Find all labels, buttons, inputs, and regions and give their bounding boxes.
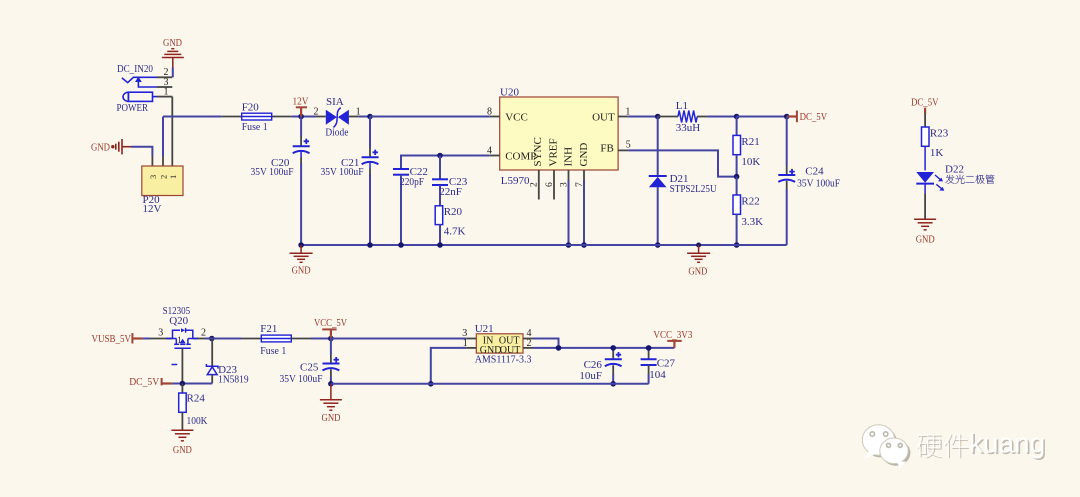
resistor R21 — [733, 117, 760, 177]
svg-text:VCC_3V3: VCC_3V3 — [653, 329, 692, 341]
svg-text:POWER: POWER — [117, 102, 149, 114]
svg-text:VCC: VCC — [505, 112, 528, 124]
svg-text:3: 3 — [158, 328, 163, 339]
connector P20 — [142, 166, 183, 215]
svg-text:10uF: 10uF — [579, 370, 602, 382]
svg-text:STPS2L25U: STPS2L25U — [670, 183, 717, 195]
inductor L1 — [658, 100, 737, 134]
junction gate/R24 node — [180, 381, 186, 387]
svg-text:35V 100uF: 35V 100uF — [251, 166, 294, 178]
wire GND rail (lower circuit) — [331, 383, 649, 385]
junction VCC_5V node — [328, 336, 334, 342]
capacitor C20 — [251, 117, 310, 246]
svg-text:SIA: SIA — [326, 96, 344, 108]
svg-text:Fuse 1: Fuse 1 — [260, 345, 286, 357]
capacitor C25 — [280, 339, 340, 386]
svg-text:D22: D22 — [945, 163, 964, 175]
junction U20 GND rail — [581, 242, 587, 248]
svg-text:5: 5 — [626, 139, 631, 150]
ground GND (below C20) — [290, 245, 313, 277]
wire COMP net — [401, 156, 490, 170]
wire drain to F21 — [205, 338, 261, 340]
svg-text:INH: INH — [563, 147, 575, 167]
connector DC_IN20 POWER jack — [117, 63, 173, 114]
svg-text:SYNC: SYNC — [532, 137, 544, 166]
svg-text:12V: 12V — [293, 96, 309, 108]
svg-text:GND: GND — [163, 37, 182, 49]
wire 12V rail — [163, 116, 326, 118]
wire ground to P20 pin 3 — [131, 147, 152, 156]
ic U21 AMS1117-3.3 — [462, 323, 533, 365]
junction DC_5V node — [784, 114, 790, 120]
svg-text:L5970: L5970 — [501, 175, 530, 187]
junction R20 rail — [437, 242, 443, 248]
fuse F20 — [242, 102, 272, 134]
power port VUSB_5V — [92, 333, 143, 345]
junction GND symbol rail — [696, 243, 701, 248]
junction OUT node — [655, 114, 661, 120]
diode D20 SIA — [314, 96, 361, 139]
power port 12V — [293, 96, 309, 117]
ground GND (below R24) — [171, 430, 193, 456]
svg-text:AMS1117-3.3: AMS1117-3.3 — [475, 354, 532, 365]
svg-text:1N5819: 1N5819 — [218, 374, 249, 386]
svg-text:R23: R23 — [930, 128, 949, 140]
svg-text:2: 2 — [527, 338, 532, 349]
svg-text:R22: R22 — [741, 196, 759, 208]
wire diode to junction — [359, 116, 370, 118]
svg-text:VCC_5V: VCC_5V — [314, 317, 347, 329]
capacitor C27 — [641, 348, 676, 384]
junction C26 rail — [610, 381, 616, 387]
resistor R20 — [435, 206, 465, 245]
svg-text:35V 100uF: 35V 100uF — [280, 373, 323, 385]
svg-text:Diode: Diode — [325, 127, 348, 139]
svg-text:kuang: kuang — [969, 428, 1045, 459]
wire U20 GND pin to ground rail — [583, 180, 585, 245]
resistor R24 — [179, 384, 208, 430]
svg-text:35V 100uF: 35V 100uF — [797, 178, 840, 190]
wire jack pin 2 to ground — [172, 68, 174, 78]
wire FB net — [628, 150, 737, 176]
capacitor C22 — [393, 166, 428, 245]
wire U21 OUT net — [533, 339, 674, 348]
svg-text:Q20: Q20 — [169, 315, 188, 327]
svg-text:GND: GND — [322, 412, 341, 424]
junction Q20 drain node — [209, 336, 215, 342]
wire F21 to VCC_5V node — [291, 338, 331, 340]
svg-text:3: 3 — [148, 175, 158, 179]
wire Q20 gate down — [181, 348, 183, 383]
svg-text:2: 2 — [201, 328, 206, 339]
svg-text:6: 6 — [545, 182, 555, 187]
svg-text:1K: 1K — [930, 147, 944, 159]
svg-text:GND: GND — [688, 266, 707, 278]
svg-text:2: 2 — [314, 107, 319, 118]
wire U21 GND pin to rail — [431, 348, 467, 384]
svg-text:GND: GND — [91, 142, 110, 154]
capacitor C23 — [432, 156, 468, 206]
junction L1 right node — [734, 114, 740, 120]
diode D23 1N5819 — [206, 339, 249, 386]
svg-text:DC_5V: DC_5V — [911, 96, 939, 108]
svg-text:1: 1 — [168, 175, 178, 179]
svg-text:GND: GND — [173, 444, 192, 456]
svg-text:22nF: 22nF — [439, 186, 462, 198]
svg-text:C27: C27 — [657, 358, 676, 370]
wire OUT node — [628, 116, 658, 118]
junction diode output node — [367, 114, 373, 120]
svg-text:FB: FB — [600, 143, 613, 155]
svg-text:3.3K: 3.3K — [741, 216, 763, 228]
capacitor C21 — [321, 117, 379, 246]
svg-text:Fuse 1: Fuse 1 — [242, 121, 268, 133]
wire GND rail (top circuit) — [301, 244, 787, 246]
wire VUSB to Q20 pin 3 — [143, 338, 150, 340]
svg-text:C25: C25 — [300, 362, 319, 374]
svg-text:104: 104 — [649, 369, 666, 381]
ground GND (below C25) — [320, 384, 342, 424]
svg-text:L1: L1 — [676, 100, 688, 112]
junction C27 OUT net — [646, 345, 652, 351]
fuse F21 — [260, 323, 291, 357]
resistor R22 — [733, 177, 763, 245]
svg-text:VUSB_5V: VUSB_5V — [92, 333, 132, 345]
capacitor C26 — [579, 348, 621, 384]
wire DC_5V gate net — [172, 383, 212, 385]
svg-text:DC_IN20: DC_IN20 — [117, 63, 153, 75]
junction C26 OUT net — [610, 345, 616, 351]
svg-text:DC_5V: DC_5V — [129, 376, 159, 388]
svg-text:12V: 12V — [143, 203, 162, 215]
svg-text:1: 1 — [177, 335, 182, 345]
svg-text:100K: 100K — [187, 415, 208, 427]
junction FB divider node — [734, 174, 740, 180]
power port VCC_3V3 — [653, 329, 692, 348]
power port DC_5V (output) — [787, 111, 827, 124]
junction COMP node — [437, 153, 443, 159]
junction D21 rail — [655, 242, 661, 248]
power port VCC_5V — [314, 317, 347, 339]
watermark logo 硬件kuang — [862, 425, 1047, 468]
svg-text:VREF: VREF — [548, 138, 560, 166]
svg-text:R20: R20 — [444, 206, 463, 218]
svg-text:33uH: 33uH — [676, 122, 701, 134]
svg-text:35V 100uF: 35V 100uF — [321, 166, 364, 178]
svg-text:R24: R24 — [187, 392, 206, 404]
svg-text:GND: GND — [916, 234, 935, 246]
led D22 — [916, 163, 994, 218]
net label DC_5V (LED column) — [911, 96, 939, 113]
capacitor C24 — [778, 117, 840, 246]
junction C20 rail — [298, 242, 304, 248]
svg-text:2: 2 — [530, 182, 540, 187]
svg-text:DC_5V: DC_5V — [800, 111, 828, 123]
svg-text:220pF: 220pF — [400, 176, 424, 188]
svg-text:GND: GND — [292, 265, 311, 277]
svg-text:F21: F21 — [260, 323, 277, 335]
wire jack pin 1 to P20 pin 1 — [171, 97, 173, 166]
junction OUT pins node — [556, 345, 562, 351]
svg-text:R21: R21 — [741, 136, 759, 148]
junction U21 GND rail — [428, 381, 434, 387]
ground GND (top circuit right) — [687, 245, 710, 278]
wire to U20 VCC — [370, 116, 490, 118]
power port DC_5V (gate net) — [129, 376, 172, 388]
svg-text:4.7K: 4.7K — [444, 226, 466, 238]
svg-text:OUT: OUT — [592, 112, 615, 124]
svg-text:C24: C24 — [805, 166, 824, 178]
junction R22 rail — [734, 242, 740, 248]
ground GND (left, at P20 pin 3) — [91, 139, 131, 154]
ground GND (LED column) — [914, 219, 936, 245]
resistor R23 — [922, 114, 949, 171]
junction C25 rail — [328, 381, 334, 387]
junction INH rail — [566, 242, 572, 248]
diode D21 STPS2L25U — [649, 117, 717, 246]
junction 12V node — [298, 114, 304, 120]
wire INH to ground rail — [568, 180, 570, 245]
svg-text:1: 1 — [164, 87, 169, 98]
svg-text:10K: 10K — [741, 156, 760, 168]
svg-text:8: 8 — [487, 107, 492, 118]
ground GND (top, above DC jack) — [162, 37, 184, 68]
svg-text:F20: F20 — [242, 102, 260, 114]
junction C22 rail — [398, 242, 404, 248]
svg-text:GND: GND — [578, 143, 590, 167]
junction C21 rail — [367, 242, 373, 248]
svg-text:4: 4 — [487, 146, 492, 157]
transistor Q20 S12305 — [150, 305, 206, 365]
wire L1 to DC_5V port — [737, 116, 787, 118]
ic U20 L5970 — [487, 86, 631, 199]
wire P20 pin 2 to 12V rail corner — [162, 117, 164, 157]
wire VCC_5V to U21 pin 3 — [331, 338, 466, 340]
